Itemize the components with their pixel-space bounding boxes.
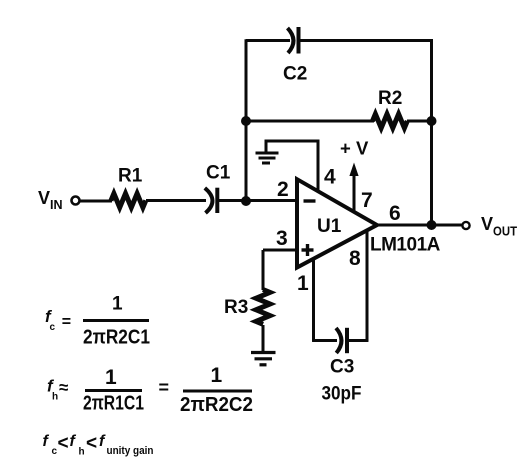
wire: R2 row left segment [246, 120, 374, 123]
formula fc = 1/(2piR2C1) [45, 294, 150, 349]
svg-text:<: < [86, 433, 97, 454]
formula fh = 1/(2piR1C1) = 1/(2piR2C2) [47, 364, 253, 416]
wire: pin 3 horizontal [263, 249, 297, 252]
svg-text:f: f [70, 433, 77, 450]
svg-text:3: 3 [276, 227, 288, 250]
svg-text:8: 8 [349, 247, 361, 270]
wire: C1 to op-amp pin 2 [218, 199, 297, 202]
wire: R1 to C1 [146, 199, 206, 202]
svg-text:h: h [79, 447, 85, 458]
svg-text:VOUT: VOUT [481, 214, 517, 239]
wire: right vertical feedback [430, 39, 433, 225]
svg-text:2: 2 [277, 178, 289, 201]
svg-text:2πR1C1: 2πR1C1 [83, 393, 144, 415]
terminal VIN [38, 188, 80, 212]
svg-text:f: f [99, 433, 106, 450]
svg-text:f: f [43, 433, 50, 450]
svg-text:unity gain: unity gain [107, 445, 154, 457]
wire: pin 3 down to R3 [262, 250, 265, 290]
svg-text:1: 1 [105, 366, 117, 389]
svg-text:R1: R1 [118, 166, 143, 187]
node: R2 left junction [241, 116, 251, 126]
svg-text:c: c [50, 322, 56, 333]
op-amp U1 [297, 179, 377, 267]
wire: left vertical feedback [245, 39, 248, 201]
capacitor C3 [330, 328, 354, 378]
resistor R1 [111, 166, 146, 208]
wire: output [377, 224, 462, 227]
svg-text:1: 1 [297, 272, 309, 295]
svg-text:1: 1 [211, 364, 223, 387]
svg-text:7: 7 [361, 189, 373, 212]
svg-text:R3: R3 [224, 297, 248, 318]
formula fc < fh < f unity gain [43, 433, 154, 458]
wire: top feedback left segment to C2 [246, 39, 290, 42]
svg-text:R2: R2 [378, 88, 402, 109]
svg-text:C1: C1 [206, 163, 231, 184]
svg-text:2πR2C1: 2πR2C1 [83, 327, 150, 349]
svg-text:=: = [159, 378, 170, 398]
resistor R3 [224, 290, 270, 325]
wire: pin 1 down [312, 258, 315, 342]
svg-text:C3: C3 [330, 357, 354, 378]
wire: R2 to right vertical [407, 120, 432, 123]
svg-text:VIN: VIN [38, 188, 63, 212]
wire: pin 1 to C3 [312, 339, 337, 342]
svg-text:30pF: 30pF [322, 384, 362, 405]
wire: R3 to ground [262, 325, 265, 352]
node: output junction [427, 220, 437, 230]
svg-text:4: 4 [324, 166, 336, 189]
svg-text:C2: C2 [283, 64, 307, 85]
resistor R2 [373, 88, 408, 128]
terminal VOUT [462, 214, 517, 239]
ground for R3 [251, 353, 276, 365]
svg-text:LM101A: LM101A [370, 235, 441, 256]
svg-text:6: 6 [389, 202, 401, 225]
ground for pin 4 [256, 153, 279, 163]
svg-text:=: = [62, 314, 71, 331]
svg-text:h: h [52, 392, 58, 403]
svg-text:2πR2C2: 2πR2C2 [180, 394, 253, 416]
svg-text:U1: U1 [317, 216, 342, 237]
capacitor C1 [205, 163, 231, 214]
power +V arrow [340, 138, 369, 212]
svg-text:+ V: + V [340, 138, 369, 159]
wire: ground bracket to pin 4 [266, 141, 318, 191]
wire: pin 8 up [366, 231, 369, 342]
svg-text:1: 1 [112, 294, 123, 315]
wire: C2 to top-right corner [299, 39, 433, 42]
wire: VIN to R1 [80, 200, 113, 203]
node: input junction [241, 196, 251, 206]
svg-text:<: < [58, 433, 69, 454]
capacitor C2 [283, 27, 307, 85]
svg-text:≈: ≈ [59, 378, 68, 397]
node: R2 right junction [427, 116, 437, 126]
wire: C3 to pin 8 [348, 339, 369, 342]
